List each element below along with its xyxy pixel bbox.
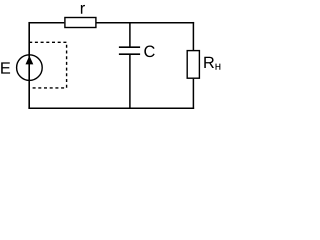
label C xyxy=(144,46,154,58)
dashed equivalent-source box xyxy=(29,42,66,88)
label R of Rn xyxy=(204,57,214,68)
capacitor C bottom plate xyxy=(119,53,140,55)
wire left vertical xyxy=(28,22,30,108)
wire top-left segment xyxy=(29,22,64,24)
wire right vertical upper xyxy=(192,22,194,50)
wire capacitor branch upper xyxy=(129,23,131,47)
label E xyxy=(1,62,10,73)
wire bottom xyxy=(28,107,194,109)
source E circle xyxy=(17,55,43,81)
resistor r xyxy=(65,18,96,28)
wire capacitor branch lower xyxy=(129,54,131,108)
source E arrow xyxy=(26,56,34,65)
wire top-right segment xyxy=(97,22,195,24)
label r xyxy=(81,5,85,14)
wire right vertical lower xyxy=(192,79,194,109)
capacitor C top plate xyxy=(119,46,140,48)
label н subscript of Rn xyxy=(216,64,221,70)
resistor Rn box xyxy=(187,51,199,79)
